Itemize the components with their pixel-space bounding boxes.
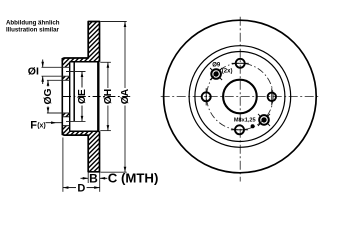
svg-text:C (MTH): C (MTH): [108, 171, 159, 186]
bolt circle (dash-dot): [207, 63, 274, 130]
section hatching: [0, 15, 255, 182]
section outline bottom half: [62, 131, 99, 172]
alignment hole NW (filled): [210, 68, 222, 80]
svg-text:ØA: ØA: [120, 88, 131, 104]
flange left face line: [61, 58, 63, 135]
dimension ØA refs: [100, 22, 126, 173]
bolt hole E: [268, 88, 276, 105]
svg-text:Illustration similar: Illustration similar: [6, 27, 60, 34]
D extension line: [62, 138, 64, 192]
dimension ØE line + label (bolt circle): [77, 72, 88, 122]
svg-text:ØG: ØG: [43, 88, 54, 104]
B extension lines: [88, 173, 100, 192]
flange right face line: [69, 62, 71, 132]
centre bore top edge: [47, 79, 70, 81]
F(x) leader arrow: [46, 121, 63, 124]
thread hole SE (filled) M8x1,25: [258, 114, 270, 126]
dimension F(x) label: [30, 119, 45, 131]
dimension ØH refs: [100, 62, 111, 130]
svg-text:B: B: [89, 171, 98, 185]
vertical centreline: [239, 17, 241, 182]
dimension ØH line + label: [103, 62, 114, 130]
bolt hole W: [202, 88, 211, 105]
bottom bolt hole edges in flange: [62, 116, 69, 118]
svg-text:M8x1,25: M8x1,25: [234, 118, 256, 124]
svg-text:(x): (x): [37, 123, 46, 130]
svg-text:(2x): (2x): [222, 69, 233, 75]
hat interior edge line: [73, 62, 75, 122]
dimension B label + arrow: [81, 171, 99, 185]
dimension ØG arrows: [47, 80, 50, 113]
note text "Abbildung ähnlich / Illustration similar": [6, 20, 60, 34]
bottom bolt hole centre line: [66, 120, 86, 122]
ring inner face edges: [70, 61, 100, 63]
outer circle ØA: [164, 20, 317, 173]
svg-text:ØI: ØI: [28, 66, 39, 78]
svg-text:Ø9: Ø9: [212, 63, 221, 69]
section outline top half: [62, 22, 99, 62]
top bolt hole centre line: [66, 71, 86, 73]
dimension D line + label: [63, 183, 100, 195]
bolt hole top edge pointer: [42, 66, 70, 68]
label Ø9 (2x): [212, 63, 232, 75]
bolt hole bottom edge pointer: [42, 75, 70, 77]
svg-text:Abbildung ähnlich: Abbildung ähnlich: [6, 20, 60, 27]
friction surface inner circle: [189, 46, 291, 148]
dimension ØA line + label: [120, 22, 131, 173]
horizontal centreline: [161, 96, 319, 98]
svg-text:D: D: [77, 183, 85, 195]
hat outer circle: [195, 52, 285, 142]
section axis centreline: [63, 96, 131, 98]
svg-text:ØE: ØE: [77, 89, 88, 104]
friction ring inner bore edge (thick): [97, 62, 99, 132]
bolt hole N: [232, 59, 249, 68]
dimension ØI arrows: [41, 60, 44, 85]
dimension C (MTH) arrow + label: [100, 171, 159, 186]
pin mark (filled dot): [251, 124, 255, 128]
svg-text:ØH: ØH: [103, 89, 114, 104]
centre bore bottom edge: [47, 112, 70, 114]
bolt hole S: [231, 125, 248, 134]
centre bore: [223, 80, 257, 114]
